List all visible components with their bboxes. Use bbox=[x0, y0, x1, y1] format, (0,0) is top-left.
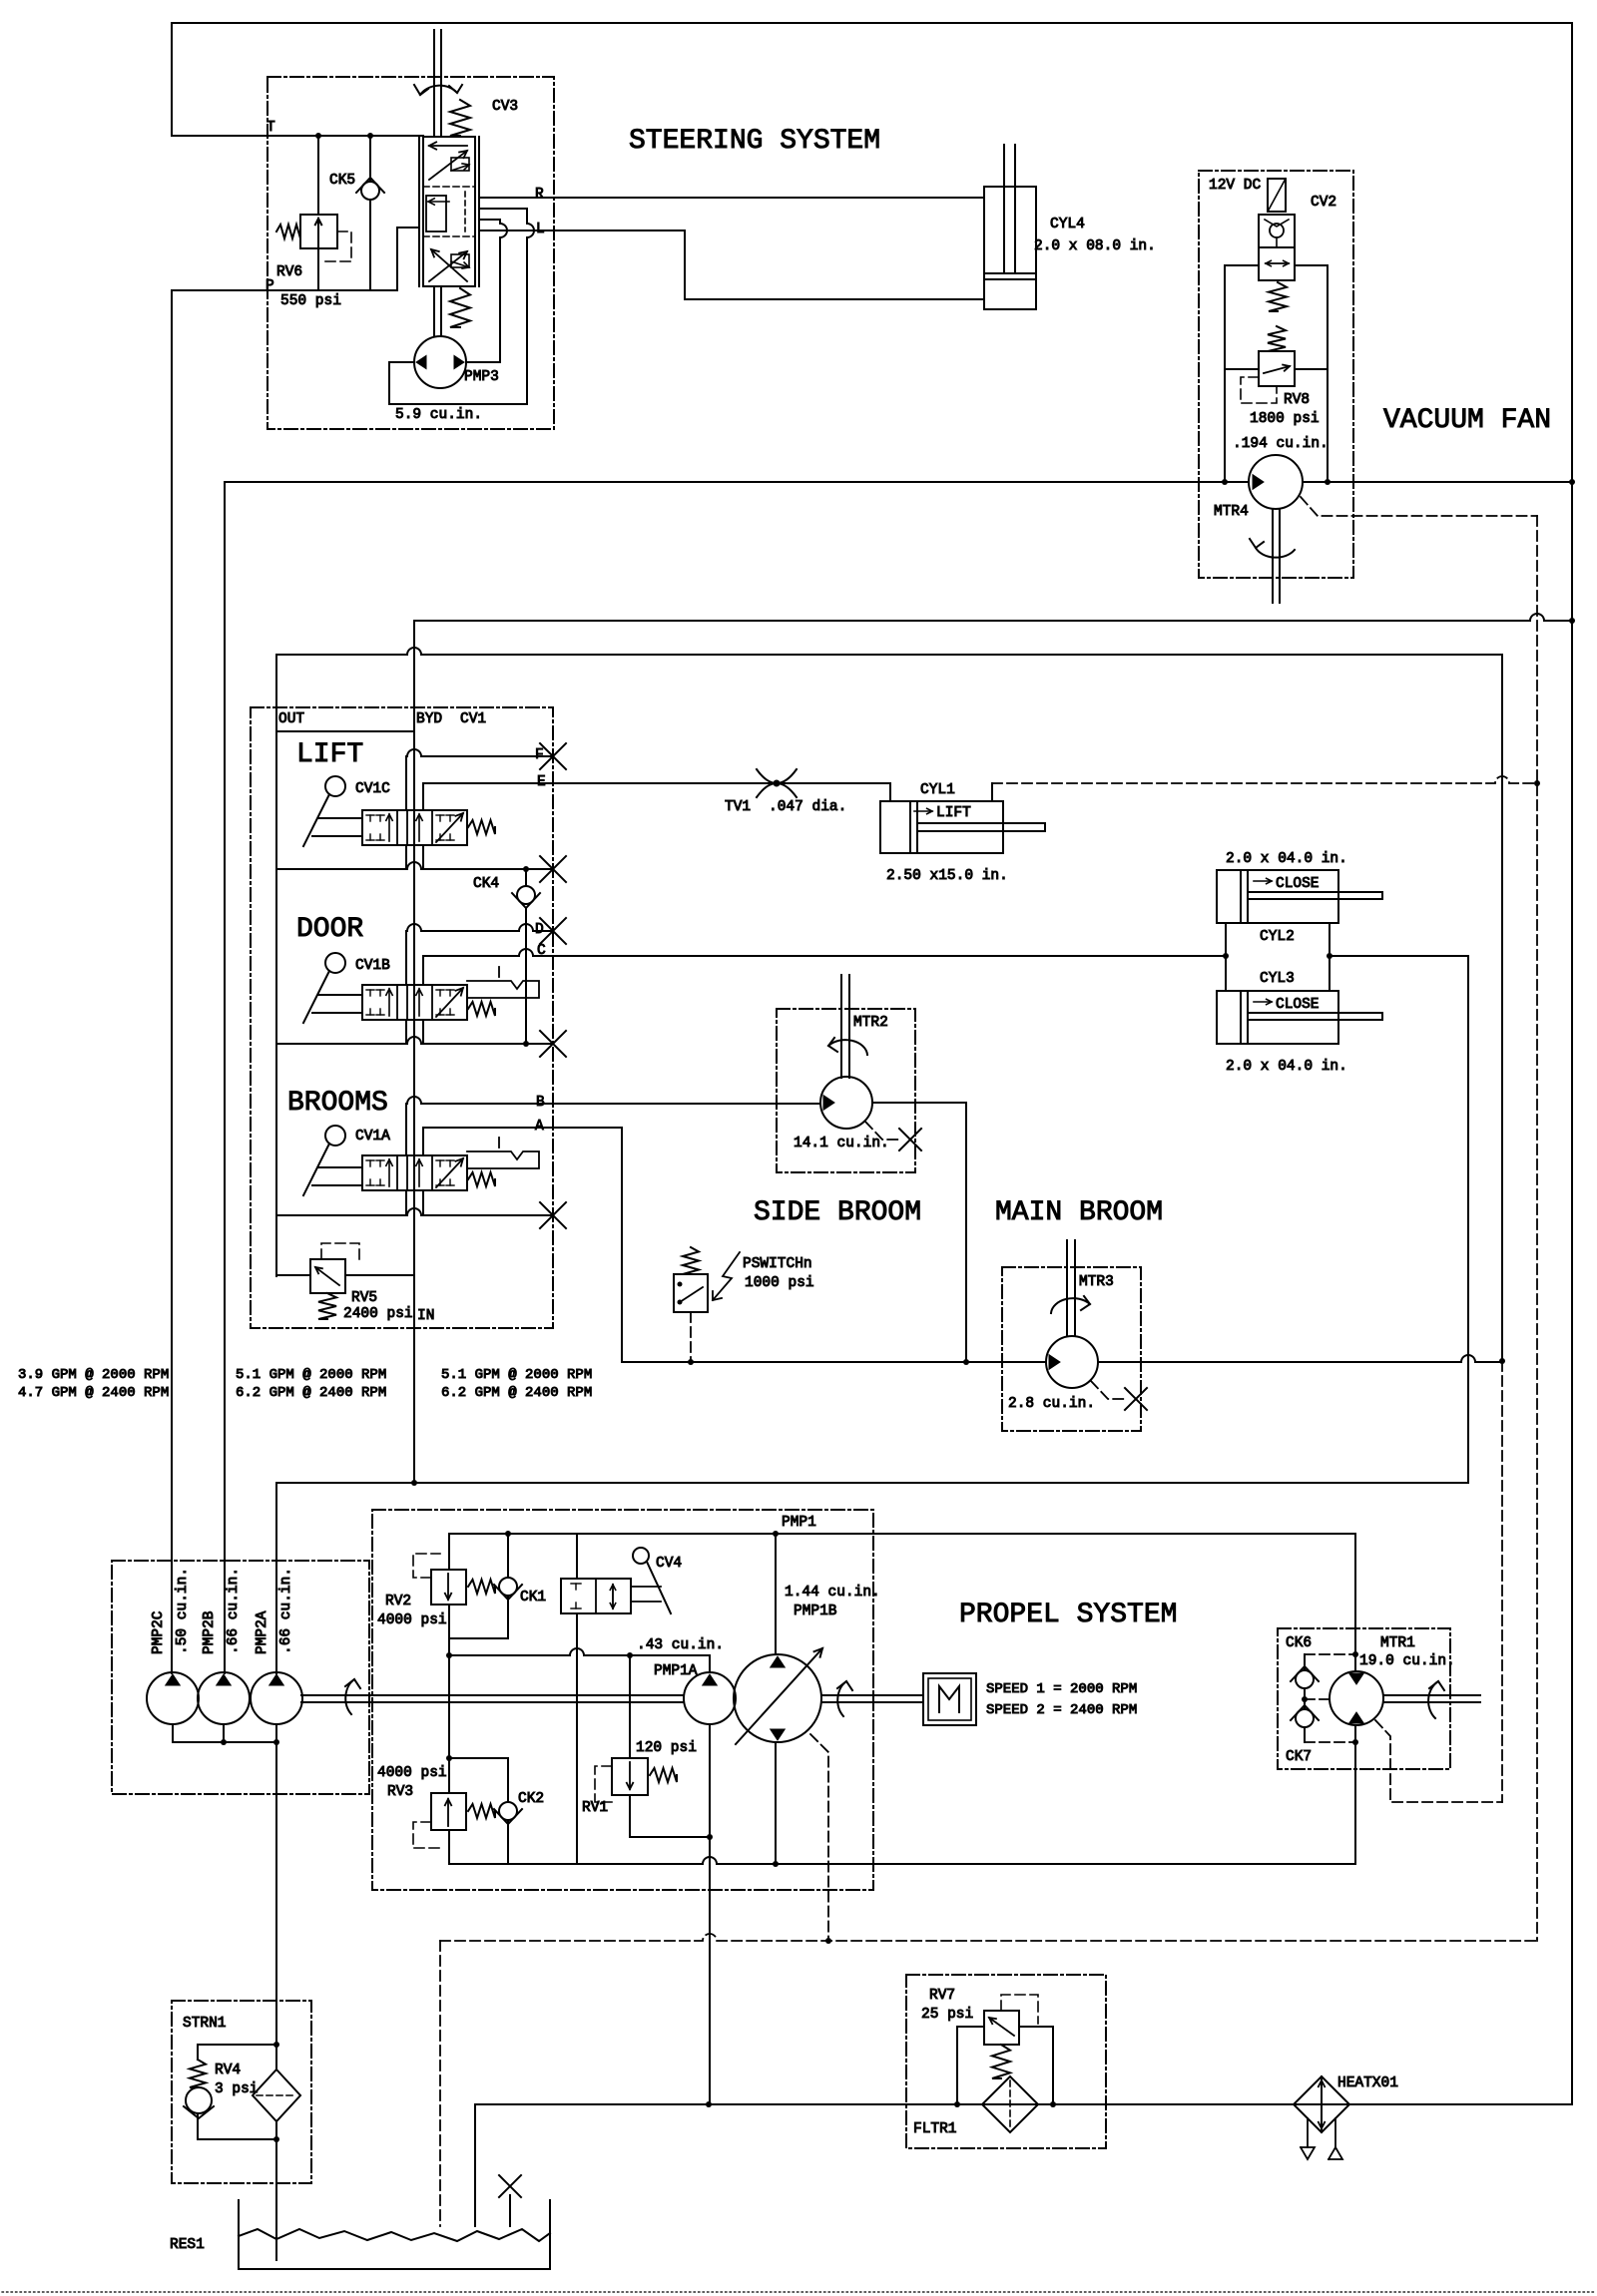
case drain MTR2 bbox=[865, 1122, 901, 1140]
wire PMP2B feed down bbox=[224, 482, 226, 1673]
wire MTR1 bottom to rail bbox=[1354, 1726, 1356, 1864]
case drain MTR1 bbox=[1375, 1720, 1502, 1802]
svg-text:CV1A: CV1A bbox=[355, 1129, 390, 1145]
svg-text:CYL3: CYL3 bbox=[1260, 971, 1295, 987]
svg-text:OUT: OUT bbox=[278, 711, 304, 727]
return into tank bbox=[474, 2104, 476, 2226]
wire CYL2-CYL3 yoke bbox=[1225, 923, 1227, 991]
svg-text:RV7: RV7 bbox=[929, 1988, 955, 2004]
shaft rotation arrow right bbox=[837, 1681, 846, 1716]
svg-text:RV3: RV3 bbox=[387, 1784, 413, 1800]
check valve CK7 bbox=[1296, 1709, 1314, 1727]
svg-text:P: P bbox=[266, 278, 274, 294]
plug DOOR out bbox=[540, 1031, 566, 1057]
hydraulic motor MTR3 bbox=[1046, 1336, 1098, 1388]
svg-text:CV4: CV4 bbox=[656, 1556, 682, 1572]
svg-text:2400 psi: 2400 psi bbox=[343, 1306, 413, 1322]
wire PMP3 right port bbox=[466, 361, 500, 363]
wire broom return rail bbox=[622, 1361, 1046, 1363]
wire LIFT section top bbox=[276, 730, 414, 732]
svg-text:.047 dia.: .047 dia. bbox=[769, 799, 846, 815]
wire top rail corner to MTR1 bbox=[1354, 1534, 1356, 1671]
pump PMP2B bbox=[198, 1672, 250, 1724]
svg-text:.194 cu.in.: .194 cu.in. bbox=[1233, 436, 1329, 452]
flow restrictor TV1 bbox=[757, 769, 797, 783]
svg-text:PSWITCHn: PSWITCHn bbox=[743, 1256, 812, 1272]
case drain collector rail bbox=[440, 1934, 1537, 1941]
makeup dashed to motor bbox=[1305, 1698, 1330, 1700]
wire pump suction manifold bbox=[172, 1724, 174, 1742]
relief valve RV2 bbox=[448, 1534, 450, 1570]
page border bottom bbox=[2, 2291, 1595, 2293]
wheel shaft MTR1 bbox=[1383, 1694, 1480, 1696]
pressure switch PSWITCHn bbox=[683, 1247, 699, 1274]
wire P feed down to PMP2C bbox=[171, 290, 173, 1673]
svg-text:CV2: CV2 bbox=[1311, 195, 1336, 211]
broom shaft MTR2 bbox=[840, 975, 842, 1078]
svg-text:MTR1: MTR1 bbox=[1380, 1635, 1415, 1651]
wire CV3 right stub upper bbox=[479, 208, 527, 210]
svg-text:PMP2B: PMP2B bbox=[202, 1610, 218, 1654]
propel pump enclosure PMP1 bbox=[372, 1510, 873, 1890]
wire A down to broom rail bbox=[621, 1128, 623, 1362]
svg-text:550 psi: 550 psi bbox=[280, 293, 341, 309]
svg-text:MTR2: MTR2 bbox=[853, 1015, 888, 1031]
wire BYD vertical bbox=[413, 621, 415, 1484]
svg-text:CYL2: CYL2 bbox=[1260, 929, 1295, 945]
spring CV3 top bbox=[450, 100, 470, 136]
electric motor M bbox=[923, 1673, 976, 1725]
heat exchanger HEATX01 bbox=[1294, 2076, 1349, 2132]
wire cylinder branch to drain junction bbox=[1501, 655, 1503, 1361]
svg-text:CK5: CK5 bbox=[329, 173, 355, 189]
filter enclosure FLTR1 bbox=[906, 1975, 1106, 2148]
wire PMP1 bottom rail bbox=[449, 1857, 1355, 1864]
svg-text:CK4: CK4 bbox=[473, 876, 499, 892]
wire BYD return rail bbox=[414, 614, 1572, 621]
wire pump out rail bbox=[276, 1482, 1468, 1484]
cylinder CYL4 bbox=[984, 187, 1036, 309]
svg-text:4000 psi: 4000 psi bbox=[377, 1765, 447, 1781]
cylinder CYL1 bbox=[889, 783, 891, 801]
strainer enclosure STRN1 bbox=[172, 2001, 311, 2183]
svg-text:5.9 cu.in.: 5.9 cu.in. bbox=[395, 407, 482, 423]
variable displacement pump PMP1B bbox=[734, 1654, 821, 1742]
vacuum fan enclosure bbox=[1199, 171, 1353, 578]
wire DOOR section bottom bbox=[276, 1037, 553, 1044]
svg-text:19.0 cu.in.: 19.0 cu.in. bbox=[1359, 1653, 1455, 1669]
svg-text:3 psi: 3 psi bbox=[215, 2081, 259, 2097]
svg-text:IN: IN bbox=[417, 1308, 434, 1324]
svg-text:2.0 x 04.0 in.: 2.0 x 04.0 in. bbox=[1226, 851, 1347, 867]
spring CV2 bbox=[1269, 282, 1287, 311]
svg-text:1.44 cu.in.: 1.44 cu.in. bbox=[785, 1585, 880, 1601]
svg-text:2.0 x 04.0 in.: 2.0 x 04.0 in. bbox=[1226, 1059, 1347, 1075]
svg-text:12V DC: 12V DC bbox=[1209, 178, 1262, 194]
filter element FLTR1 bbox=[982, 2076, 1038, 2132]
wire RV2 lower rail bbox=[449, 1648, 710, 1655]
wire OUT vertical bbox=[275, 655, 277, 1276]
svg-text:PMP1A: PMP1A bbox=[654, 1663, 698, 1679]
side broom motor enclosure bbox=[777, 1009, 915, 1172]
svg-text:.43 cu.in.: .43 cu.in. bbox=[637, 1637, 724, 1653]
svg-text:2.0 x 08.0 in.: 2.0 x 08.0 in. bbox=[1034, 238, 1156, 254]
svg-text:RES1: RES1 bbox=[170, 2237, 205, 2253]
reservoir breather bbox=[509, 2195, 511, 2226]
svg-text:.50 cu.in.: .50 cu.in. bbox=[175, 1568, 191, 1654]
svg-text:PMP1B: PMP1B bbox=[794, 1604, 837, 1619]
control valve CV1B bbox=[362, 985, 467, 1020]
wheel rotation arrow bbox=[1428, 1681, 1438, 1718]
wire T line bbox=[172, 135, 423, 137]
hydraulic motor MTR2 bbox=[820, 1077, 872, 1129]
reservoir RES1 bbox=[239, 2200, 550, 2269]
control valve CV1C bbox=[362, 810, 467, 845]
broom shaft MTR3 bbox=[1066, 1240, 1068, 1336]
svg-text:6.2 GPM @ 2400 RPM: 6.2 GPM @ 2400 RPM bbox=[441, 1385, 592, 1401]
svg-text:BYD: BYD bbox=[416, 711, 442, 727]
relief valve RV7 bbox=[984, 2011, 1019, 2045]
plug LIFT out bbox=[540, 856, 566, 882]
solenoid valve CV4 bbox=[633, 1548, 649, 1564]
case drain CYL1 stub bbox=[991, 783, 993, 801]
svg-text:MTR4: MTR4 bbox=[1214, 504, 1249, 520]
svg-text:4.7 GPM @ 2400 RPM: 4.7 GPM @ 2400 RPM bbox=[18, 1385, 169, 1401]
svg-text:MTR3: MTR3 bbox=[1079, 1274, 1114, 1290]
wire cylinder line vertical bbox=[1467, 956, 1469, 1483]
wire PMP3 left loop bbox=[389, 362, 527, 404]
relief valve RV3 bbox=[448, 1655, 450, 1793]
valve bank CV1 enclosure bbox=[251, 707, 553, 1328]
wire MTR4 supply rail bbox=[225, 481, 1249, 483]
svg-text:T: T bbox=[266, 120, 275, 136]
wire B to MTR2 out bbox=[872, 1103, 966, 1362]
svg-text:RV6: RV6 bbox=[276, 264, 302, 280]
pump PMP2C bbox=[147, 1672, 199, 1724]
svg-text:CV3: CV3 bbox=[492, 99, 518, 115]
pump drive shaft bbox=[301, 1694, 684, 1696]
svg-text:3.9 GPM @ 2000 RPM: 3.9 GPM @ 2000 RPM bbox=[18, 1367, 169, 1383]
svg-text:STEERING SYSTEM: STEERING SYSTEM bbox=[629, 126, 880, 157]
svg-text:RV8: RV8 bbox=[1284, 392, 1310, 408]
wire LIFT section bottom bbox=[276, 862, 553, 869]
svg-text:LIFT: LIFT bbox=[296, 739, 363, 770]
port F plug bbox=[540, 743, 566, 769]
wire pump out riser bbox=[275, 1483, 277, 1673]
wire right border return bbox=[1571, 23, 1573, 2104]
strainer element STRN1 bbox=[253, 2069, 300, 2121]
makeup dashed top bbox=[1305, 1653, 1355, 1655]
svg-text:SPEED 2 = 2400 RPM: SPEED 2 = 2400 RPM bbox=[986, 1702, 1137, 1718]
svg-text:MAIN BROOM: MAIN BROOM bbox=[995, 1197, 1163, 1228]
control valve CV1A bbox=[362, 1155, 467, 1190]
charge pump PMP1A bbox=[709, 1655, 711, 1672]
svg-text:.66 cu.in.: .66 cu.in. bbox=[226, 1568, 242, 1654]
solenoid valve CV2 bbox=[1259, 215, 1295, 247]
svg-text:CK1: CK1 bbox=[520, 1590, 546, 1606]
svg-text:14.1 cu.in.: 14.1 cu.in. bbox=[794, 1136, 889, 1151]
svg-text:CK7: CK7 bbox=[1286, 1749, 1312, 1765]
port D plug bbox=[540, 918, 566, 944]
relief valve RV1 bbox=[629, 1655, 631, 1758]
gerotor pump PMP3 bbox=[433, 286, 435, 336]
relief valve RV5 bbox=[310, 1259, 345, 1293]
wire left drop to steering T bbox=[171, 23, 173, 136]
wire return line to tank bbox=[475, 2103, 1572, 2105]
case drain CYL1 dashed rail bbox=[992, 776, 1537, 783]
svg-text:CYL4: CYL4 bbox=[1050, 217, 1085, 232]
wire CV3 right stub lower bbox=[479, 219, 500, 221]
solenoid CV2 coil bbox=[1268, 179, 1286, 212]
svg-text:DOOR: DOOR bbox=[296, 914, 363, 945]
svg-text:5.1 GPM @ 2000 RPM: 5.1 GPM @ 2000 RPM bbox=[236, 1367, 386, 1383]
fan shaft MTR4 bbox=[1272, 509, 1274, 603]
wire P line bbox=[172, 289, 397, 291]
pressure switch pilot bbox=[690, 1312, 692, 1362]
cylinder CYL3 bbox=[1217, 991, 1338, 1044]
fan rotation arrow bbox=[1256, 548, 1295, 558]
hydraulic motor MTR1 bbox=[1330, 1671, 1383, 1725]
wire PMP1A suction bbox=[709, 1725, 711, 2104]
svg-text:PMP1: PMP1 bbox=[782, 1515, 816, 1531]
steering system enclosure bbox=[267, 77, 554, 429]
wire top return line bbox=[172, 22, 1572, 24]
spring CV3 bottom bbox=[450, 288, 470, 327]
svg-text:PROPEL SYSTEM: PROPEL SYSTEM bbox=[959, 1600, 1177, 1630]
svg-text:CYL1: CYL1 bbox=[920, 782, 955, 798]
relief valve RV6 bbox=[317, 136, 319, 215]
steering wheel shaft bbox=[433, 30, 435, 137]
wire OUT rail top bbox=[276, 648, 1502, 655]
svg-text:R: R bbox=[535, 187, 544, 203]
svg-text:BROOMS: BROOMS bbox=[287, 1088, 388, 1119]
svg-text:CV1: CV1 bbox=[460, 711, 486, 727]
pump shaft PMP1B to motor bbox=[821, 1694, 923, 1696]
shaft rotation arrow bbox=[345, 1679, 354, 1714]
wire L line to CYL4 bbox=[479, 230, 685, 231]
bypass check RV4 bbox=[198, 2045, 276, 2060]
hydraulic motor MTR4 bbox=[1249, 455, 1303, 509]
svg-text:STRN1: STRN1 bbox=[183, 2016, 227, 2032]
check valve CK2 bbox=[449, 1757, 508, 1759]
check valve CK1 bbox=[507, 1534, 509, 1578]
rotation arrow MTR3 bbox=[1051, 1298, 1090, 1313]
wheel motor enclosure bbox=[1278, 1628, 1450, 1769]
case drain to tank bbox=[439, 1941, 441, 2226]
svg-text:CLOSE: CLOSE bbox=[1276, 997, 1320, 1013]
svg-text:25 psi: 25 psi bbox=[921, 2007, 973, 2023]
svg-text:FLTR1: FLTR1 bbox=[913, 2121, 957, 2137]
check valve CK6 bbox=[1304, 1654, 1306, 1669]
svg-text:TV1: TV1 bbox=[725, 799, 751, 815]
wire PMP1B verticals bbox=[775, 1534, 777, 1654]
svg-text:PMP3: PMP3 bbox=[464, 369, 499, 385]
svg-text:CK6: CK6 bbox=[1286, 1635, 1312, 1651]
steering wheel rotation arrow bbox=[420, 86, 457, 95]
svg-text:1800 psi: 1800 psi bbox=[1250, 411, 1320, 427]
svg-text:6.2 GPM @ 2400 RPM: 6.2 GPM @ 2400 RPM bbox=[236, 1385, 386, 1401]
svg-text:CLOSE: CLOSE bbox=[1276, 876, 1320, 892]
svg-text:120 psi: 120 psi bbox=[636, 1740, 697, 1756]
main broom motor enclosure bbox=[1002, 1267, 1141, 1431]
svg-text:RV2: RV2 bbox=[385, 1594, 411, 1609]
case drain vertical dashed bbox=[1536, 516, 1538, 1939]
rotation arrow MTR2 bbox=[828, 1040, 867, 1055]
pump assembly enclosure bbox=[112, 1561, 369, 1794]
wire CV2 right bypass bbox=[1295, 265, 1328, 482]
svg-text:SIDE BROOM: SIDE BROOM bbox=[754, 1197, 921, 1228]
svg-text:PMP2A: PMP2A bbox=[255, 1610, 270, 1654]
check valve CK4 bbox=[525, 869, 527, 886]
case drain MTR3 bbox=[1091, 1381, 1127, 1399]
svg-text:1000 psi: 1000 psi bbox=[745, 1275, 814, 1291]
wire CV2 left bypass bbox=[1225, 265, 1259, 482]
svg-text:LIFT: LIFT bbox=[936, 805, 971, 821]
pump PMP2A bbox=[251, 1672, 302, 1724]
wire cylinder feed right bbox=[1330, 955, 1468, 957]
wire strainer to tank bbox=[275, 2121, 277, 2139]
case drain PMP1B bbox=[810, 1734, 828, 1941]
plug BROOMS out bbox=[540, 1202, 566, 1228]
svg-text:2.8 cu.in.: 2.8 cu.in. bbox=[1008, 1396, 1095, 1412]
svg-text:2.50 x15.0 in.: 2.50 x15.0 in. bbox=[886, 868, 1008, 884]
svg-text:CK2: CK2 bbox=[518, 1791, 544, 1807]
case drain riser to broom rail bbox=[1501, 1361, 1503, 1802]
svg-text:5.1 GPM @ 2000 RPM: 5.1 GPM @ 2000 RPM bbox=[441, 1367, 592, 1383]
wire suction down to strainer bbox=[275, 1742, 277, 2069]
svg-text:CV1B: CV1B bbox=[355, 958, 390, 974]
wire BROOMS section bottom bbox=[276, 1208, 553, 1215]
steering control valve CV3 bbox=[418, 137, 420, 286]
relief valve RV8 bbox=[1259, 351, 1295, 386]
svg-text:RV5: RV5 bbox=[351, 1290, 377, 1306]
svg-text:HEATX01: HEATX01 bbox=[1337, 2075, 1398, 2091]
svg-text:4000 psi: 4000 psi bbox=[377, 1612, 447, 1628]
svg-text:PMP2C: PMP2C bbox=[151, 1610, 167, 1654]
wire PMP1 top rail bbox=[449, 1533, 1355, 1535]
svg-text:CV1C: CV1C bbox=[355, 781, 390, 797]
svg-text:RV4: RV4 bbox=[215, 2063, 241, 2078]
wire CV4 vertical bbox=[576, 1534, 578, 1579]
check valve CK5 bbox=[369, 136, 371, 182]
makeup dashed bottom bbox=[1305, 1741, 1355, 1743]
case drain MTR4 dashed bbox=[1301, 497, 1537, 516]
svg-text:VACUUM FAN: VACUUM FAN bbox=[1383, 405, 1551, 436]
svg-text:.66 cu.in.: .66 cu.in. bbox=[278, 1568, 294, 1654]
svg-text:SPEED 1 = 2000 RPM: SPEED 1 = 2000 RPM bbox=[986, 1681, 1137, 1697]
wire R line to CYL4 bbox=[479, 197, 984, 199]
